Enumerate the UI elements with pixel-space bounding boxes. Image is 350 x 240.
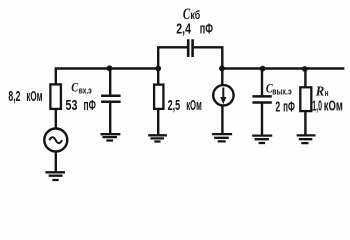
wire: Cкб loop left riser and top lead [158,47,187,68]
AC source circle [44,129,67,152]
current source arrow head [220,97,226,104]
ground: under 2,5 кОм [148,135,167,141]
svg-text:C: C [183,6,190,23]
wire: Cвых.э to ground [261,104,263,136]
svg-text:2,5: 2,5 [168,98,181,114]
value 1,0 кОм [312,98,343,114]
svg-text:вх.э: вх.э [79,86,92,97]
junction dot: node at 2,5 кОм riser [155,66,161,72]
wire: resistor to AC source [55,109,57,129]
svg-text:пФ: пФ [200,21,213,37]
label Cкб [183,6,200,23]
junction dot: node at Cвых.э [260,66,266,72]
wire: resistor 2,5 кОм to ground [157,109,159,135]
svg-text:1,0: 1,0 [312,98,322,114]
capacitor Cкб plates [188,39,192,57]
svg-text:кОм: кОм [26,89,42,105]
ground: under Rн [297,135,316,143]
wire: resistor Rн to ground [304,111,306,135]
wire: right bus segment [221,67,345,69]
ground: under Cвх.э [101,134,121,140]
value 2,4 пФ [176,21,213,37]
wire: bus to current source [221,69,223,86]
value 53 пФ [66,98,96,114]
svg-text:кб: кб [190,10,200,22]
capacitor Cвых.э plates [252,96,271,102]
resistor 8,2 кОм body [50,84,61,109]
wire: bus to resistor Rн [304,69,306,88]
resistor Rн body [300,87,311,111]
label Rн [315,84,329,99]
current source circle [213,85,233,105]
ground: under current source [212,134,232,141]
svg-text:R: R [315,84,324,99]
svg-text:2,4: 2,4 [176,21,191,37]
resistor 2,5 кОм body [154,85,163,109]
svg-text:C: C [71,80,78,94]
svg-text:пФ: пФ [84,98,96,114]
AC source sine symbol [49,137,62,143]
svg-text:53: 53 [66,98,78,114]
svg-text:8,2: 8,2 [8,89,20,105]
value 2 пФ [275,99,294,115]
junction dot: input node at Cвх.э [107,65,113,71]
wire: bus to Cвх.э [109,69,111,95]
svg-text:2: 2 [275,99,280,115]
ground: under AC source [45,172,65,180]
label Cвых.э [266,81,292,97]
wire: Cкб loop right lead and riser [194,47,223,68]
junction dot: node at Rн [302,66,308,72]
svg-text:пФ: пФ [283,99,295,115]
svg-text:вых.э: вых.э [272,86,291,97]
wire: AC source to ground [55,152,57,172]
svg-text:кОм: кОм [186,98,202,114]
label Cвх.э [71,80,91,96]
label 8,2 кОм [8,89,42,105]
svg-text:кОм: кОм [324,98,343,114]
wire: bus to Cвых.э [261,69,263,96]
wire: bus to resistor 2,5 кОм [157,69,159,85]
junction dot: node at current source riser [219,66,225,72]
current source arrow shaft [222,88,224,99]
ground: under Cвых.э [252,136,272,143]
value 2,5 кОм [168,98,202,114]
wire: left bus segment with corner down to input branch [56,69,160,85]
capacitor Cвх.э plates [101,96,121,102]
wire: Cвх.э to ground [109,103,111,134]
wire: current source to ground [221,105,223,134]
